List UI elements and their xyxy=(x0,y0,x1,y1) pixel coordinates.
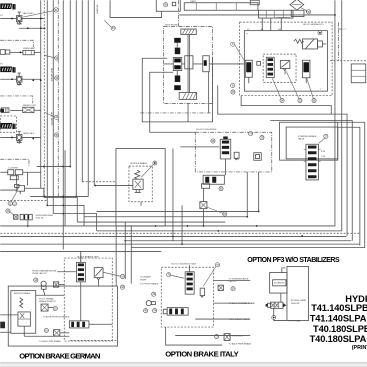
wire xyxy=(338,127,360,245)
svg-text:FROM TRANSMISSIONE: FROM TRANSMISSIONE xyxy=(32,269,56,272)
stubs from cluster xyxy=(16,175,18,185)
dashed wire to right box xyxy=(330,60,367,62)
scattered tiny labels xyxy=(0,0,322,170)
callout 71 xyxy=(214,335,218,339)
svg-text:ALETTATORE: ALETTATORE xyxy=(50,112,53,126)
brake pedal valve xyxy=(18,298,30,331)
inner solid box xyxy=(244,31,327,92)
svg-text:VALVOLA 1: VALVOLA 1 xyxy=(23,12,35,15)
wire Zb xyxy=(47,205,84,226)
x box below pump xyxy=(200,202,207,209)
callout 78 xyxy=(260,136,264,140)
svg-text:EXTEND CARR: EXTEND CARR xyxy=(291,299,306,302)
wire xyxy=(19,27,46,29)
charge valve column xyxy=(76,255,85,282)
junction xyxy=(256,225,258,227)
callout 75 xyxy=(167,273,171,277)
extra junction dots xyxy=(203,225,205,227)
pump assembly bottom xyxy=(201,175,224,188)
diff housing xyxy=(185,56,193,69)
callout 95 xyxy=(164,3,168,7)
wire xyxy=(276,17,290,19)
svg-text:SOLENOID: SOLENOID xyxy=(274,283,285,285)
leader line xyxy=(23,11,54,17)
circle 10 xyxy=(152,292,156,296)
wire xyxy=(46,0,48,205)
top axle beam xyxy=(184,0,259,10)
svg-text:GIDROSPEICHER: GIDROSPEICHER xyxy=(36,215,54,217)
right side of bloco xyxy=(330,22,367,83)
marks xyxy=(195,3,197,11)
top-left logo NEW HOLLAND 1 xyxy=(0,3,15,9)
callouts right xyxy=(120,274,124,278)
dash-dot divider 2 xyxy=(0,96,33,103)
BLOCK BRAKES GER dashed box xyxy=(64,258,112,341)
svg-text:TO AXLE GIROMAL BRAKE: TO AXLE GIROMAL BRAKE xyxy=(229,302,256,305)
wire xyxy=(202,188,204,201)
wire xyxy=(0,18,16,20)
right box xyxy=(351,64,366,83)
small x box xyxy=(53,282,58,287)
svg-text:(PRINTED: (PRINTED xyxy=(352,345,367,351)
collector wire A xyxy=(37,166,70,168)
wire xyxy=(241,96,331,115)
callout 40 xyxy=(144,309,148,313)
callout 76 xyxy=(307,10,311,14)
wire in xyxy=(95,185,133,187)
wires down xyxy=(246,172,248,217)
wire xyxy=(0,136,16,138)
wire long below beam xyxy=(179,14,335,16)
right vertical valve xyxy=(302,60,310,83)
callout xyxy=(44,328,48,332)
svg-text:BLOCO SOLENOID ITALY: BLOCO SOLENOID ITALY xyxy=(172,262,197,265)
callouts bottom xyxy=(280,98,284,102)
stub xyxy=(281,267,283,272)
dash-dot in box xyxy=(177,0,179,26)
axle dash-dot box xyxy=(164,26,213,103)
svg-text:OPTION BRAKE ITALY: OPTION BRAKE ITALY xyxy=(165,350,238,359)
logo NEW HOLLAND 2 xyxy=(0,67,15,73)
svg-text:AXLE FRONT: AXLE FRONT xyxy=(165,23,179,26)
svg-text:VALVOLA 2: VALVOLA 2 xyxy=(23,132,35,135)
valve (X) xyxy=(23,107,34,112)
wire xyxy=(52,0,54,213)
wire xyxy=(62,0,64,249)
svg-text:TO STEERING AXLE: TO STEERING AXLE xyxy=(229,277,249,280)
wire xyxy=(97,0,342,231)
wire twin xyxy=(64,150,66,226)
svg-text:4 RD. M: 4 RD. M xyxy=(36,218,44,220)
wire xyxy=(0,235,346,237)
x box xyxy=(41,304,48,311)
callout 31 xyxy=(54,8,58,12)
wire xyxy=(40,0,42,188)
junction xyxy=(301,235,303,237)
svg-text:BLOCO HIDRAULICO: BLOCO HIDRAULICO xyxy=(303,23,324,26)
connector box xyxy=(156,0,180,11)
small marks xyxy=(172,2,176,6)
outer rect xyxy=(287,266,309,320)
valve xyxy=(266,299,307,308)
wire xyxy=(22,78,41,80)
junction xyxy=(32,79,34,81)
left edge dark component xyxy=(0,322,5,329)
small box on beam xyxy=(250,0,259,5)
wire xyxy=(10,51,23,53)
x box right xyxy=(218,285,223,290)
wire xyxy=(34,51,41,53)
dash-dot section divider 1 xyxy=(0,40,33,47)
lower brake valve xyxy=(69,321,95,328)
wire xyxy=(22,136,41,138)
junction xyxy=(27,27,29,29)
callout 34 xyxy=(54,115,58,119)
shaft below axle xyxy=(187,103,189,122)
wire xyxy=(57,0,59,196)
group 5 : valve with circle 3 xyxy=(0,131,58,144)
svg-text:TO PF3 RAIL: TO PF3 RAIL xyxy=(288,320,301,323)
master valve xyxy=(163,308,188,316)
mid service-brake sub box xyxy=(94,149,183,246)
outer box xyxy=(8,286,117,346)
svg-text:CLUSTER: CLUSTER xyxy=(8,168,18,170)
callout 94 xyxy=(111,26,115,30)
svg-text:BRAKE PUMP LP: BRAKE PUMP LP xyxy=(39,300,56,303)
top-centre tank wire xyxy=(110,0,335,26)
dash-dot xyxy=(337,22,339,61)
component xyxy=(1,108,9,113)
wire xyxy=(338,121,365,123)
wire xyxy=(180,146,219,148)
accumulator xyxy=(41,281,46,292)
callout 74 xyxy=(153,309,157,313)
svg-text:OPTION BRAKE GERMAN: OPTION BRAKE GERMAN xyxy=(19,351,101,360)
svg-text:FRENO ANT: FRENO ANT xyxy=(23,47,36,50)
callout xyxy=(219,187,223,191)
junction xyxy=(19,51,21,53)
box xyxy=(116,149,165,226)
callout 33 xyxy=(55,76,59,80)
junction xyxy=(40,18,42,20)
upper-left valve group 1 xyxy=(0,8,58,29)
left vertical bus wires xyxy=(41,0,116,286)
wire Za xyxy=(25,188,78,222)
logo NEW HOLLAND 3 (dashed surround) xyxy=(0,116,16,132)
bottom grey band xyxy=(0,362,367,363)
collector wire B xyxy=(30,195,88,197)
svg-text:TO AXLE FRER BRAKE: TO AXLE FRER BRAKE xyxy=(229,343,252,346)
valve column inside xyxy=(220,136,231,175)
junction xyxy=(124,240,126,242)
stubs into inner box xyxy=(261,18,263,31)
junction xyxy=(11,137,13,139)
svg-text:OPTION PF3 W/O STABILIZERS: OPTION PF3 W/O STABILIZERS xyxy=(247,257,340,264)
wire xyxy=(81,0,83,182)
callouts left xyxy=(231,42,235,46)
component xyxy=(0,50,5,55)
wire xyxy=(182,63,185,65)
valve xyxy=(23,50,34,54)
dashed box xyxy=(161,267,213,327)
svg-text:ALETTATORE: ALETTATORE xyxy=(50,68,53,82)
wire xyxy=(142,58,213,122)
steering cylinder column (dark) xyxy=(174,38,181,43)
relief valve xyxy=(294,39,327,49)
wire german feed xyxy=(115,226,117,286)
dashed band line xyxy=(0,232,360,234)
svg-text:RETURN: RETURN xyxy=(95,5,97,14)
wire xyxy=(43,0,45,196)
svg-text:TO AXLE WITHOUT BRAKE: TO AXLE WITHOUT BRAKE xyxy=(43,315,70,318)
dashed sub box xyxy=(263,54,296,82)
callout xyxy=(248,132,252,136)
svg-text:SERVICE BRAKE: SERVICE BRAKE xyxy=(14,292,31,295)
svg-text:FOOT THREAD: FOOT THREAD xyxy=(39,297,54,300)
dash-dot frame line mid xyxy=(140,112,212,114)
dashed valve box xyxy=(129,166,152,202)
wire italy feed xyxy=(124,222,126,279)
svg-text:BLOCO SOLENOIDE: BLOCO SOLENOIDE xyxy=(197,129,218,131)
BLOCO HIDRAULICO dashed box xyxy=(231,10,333,103)
wire xyxy=(22,18,44,20)
x box bottom xyxy=(224,334,230,341)
junction xyxy=(40,79,42,81)
callout 27 xyxy=(324,134,328,138)
junction xyxy=(187,225,189,227)
svg-text:VALVE: VALVE xyxy=(298,137,305,140)
small valve xyxy=(200,288,205,297)
AXLE FRONT assembly xyxy=(164,23,245,122)
wire xyxy=(176,43,178,48)
stub below xyxy=(140,202,142,206)
valve V2 xyxy=(16,76,22,82)
svg-text:T41.140SLPA 4: T41.140SLPA 4 xyxy=(310,313,367,323)
svg-text:TO AXLE TWR BRAKE: TO AXLE TWR BRAKE xyxy=(39,340,61,343)
solenoid box xyxy=(270,273,287,294)
callout 73 xyxy=(215,263,219,267)
svg-text:TO FRONT BRAKE: TO FRONT BRAKE xyxy=(140,282,159,285)
valve column xyxy=(266,57,274,77)
square box xyxy=(254,153,262,161)
wires inside german xyxy=(80,251,82,262)
wire down right xyxy=(172,149,174,241)
wire Zc xyxy=(53,214,96,231)
callout 35 xyxy=(54,133,58,137)
right steering inner box xyxy=(286,127,338,159)
wire xyxy=(93,0,95,185)
hand brake valve group top xyxy=(0,185,24,195)
leader to junction xyxy=(300,7,307,11)
filter (diamond) xyxy=(276,0,309,18)
callout 50 xyxy=(231,287,235,291)
callout xyxy=(223,212,227,216)
wires down xyxy=(208,72,210,113)
wire xyxy=(0,243,360,245)
ALCO/BLOCO SOLENOIDE dash-dot box xyxy=(195,132,272,172)
pump right xyxy=(203,56,210,72)
tall valve xyxy=(185,265,194,294)
svg-text:TO BRAKE: TO BRAKE xyxy=(140,275,151,278)
pilot stub xyxy=(18,12,21,16)
valve V3 xyxy=(16,134,22,140)
wire xyxy=(218,85,347,236)
svg-text:SIDE RE: SIDE RE xyxy=(291,303,300,305)
svg-text:T40.180SLPB 4: T40.180SLPB 4 xyxy=(313,324,367,334)
svg-text:PUMP LAYOUT: PUMP LAYOUT xyxy=(32,272,47,275)
group 2 : small valve row xyxy=(0,50,59,60)
wheel bottom (hatched) xyxy=(179,92,196,99)
wire xyxy=(209,63,244,65)
wires xyxy=(214,280,251,282)
dash-dot divider 3 xyxy=(0,159,29,166)
wires xyxy=(273,308,275,315)
dashed divider xyxy=(0,200,48,202)
tall valve xyxy=(304,144,326,180)
top connector box xyxy=(258,10,293,18)
wire xyxy=(77,221,225,223)
right small valve xyxy=(94,268,103,285)
wire xyxy=(97,210,259,212)
callout xyxy=(53,306,57,310)
group 3 : valve with circle 2 xyxy=(0,68,59,85)
long horizontal connection wires (middle band) xyxy=(0,0,365,283)
svg-text:FRENO POST: FRENO POST xyxy=(23,105,37,107)
svg-text:SERVICE BRAKE: SERVICE BRAKE xyxy=(130,162,147,165)
accumulator xyxy=(146,301,155,306)
component on top xyxy=(291,10,304,16)
junction xyxy=(40,27,42,29)
left-mid wires to center xyxy=(142,58,365,245)
small valve xyxy=(280,60,290,74)
gidromat valve xyxy=(13,214,53,226)
wire xyxy=(110,0,162,17)
junction xyxy=(11,78,13,80)
wire xyxy=(0,314,18,316)
junction xyxy=(11,18,13,20)
wire xyxy=(150,72,196,132)
wire italy feed xyxy=(130,226,132,284)
wheel top (hatched) xyxy=(181,29,196,35)
callouts xyxy=(8,201,12,205)
valve V1 xyxy=(16,16,22,22)
wire xyxy=(0,78,16,80)
wire xyxy=(270,121,352,241)
callout 32 xyxy=(55,56,59,60)
callout dark xyxy=(272,315,276,319)
callout 96 xyxy=(211,139,215,143)
svg-text:TANK: TANK xyxy=(190,0,196,3)
wire xyxy=(10,109,23,111)
svg-text:PUMP: PUMP xyxy=(140,279,147,281)
right steering outer box xyxy=(280,122,338,160)
group 6 : small manifold cluster xyxy=(0,170,41,180)
x box small xyxy=(53,330,59,336)
wire xyxy=(0,250,161,252)
group 4 : hatched valve row xyxy=(0,107,58,126)
wire xyxy=(0,0,335,226)
junction xyxy=(32,138,34,140)
leader xyxy=(44,55,54,58)
callout xyxy=(34,278,38,282)
wire xyxy=(87,0,89,196)
tiny spring valve xyxy=(234,152,239,160)
wire box to valve xyxy=(280,293,282,302)
beam rect xyxy=(184,3,258,11)
relief valve xyxy=(135,170,140,179)
junction xyxy=(155,225,157,227)
wire xyxy=(131,122,365,247)
wire xyxy=(125,240,351,242)
junction xyxy=(217,230,219,232)
wire down right 2 xyxy=(181,205,183,244)
svg-text:T41.140SLPB 4: T41.140SLPB 4 xyxy=(311,303,367,313)
left valve xyxy=(245,60,260,83)
callout dark xyxy=(153,161,157,165)
wire xyxy=(84,216,247,218)
wire xyxy=(34,109,41,111)
svg-text:STEERING BRAKE: STEERING BRAKE xyxy=(298,135,317,138)
leader xyxy=(44,112,54,117)
callout dark xyxy=(318,31,322,35)
wire xyxy=(69,0,71,166)
middle right region: boxes xyxy=(180,122,338,226)
axle shaft xyxy=(187,35,189,93)
svg-text:FRER BRAKE REALE: FRER BRAKE REALE xyxy=(229,318,250,321)
wire xyxy=(75,0,77,196)
svg-text:T40.180SLPA 4: T40.180SLPA 4 xyxy=(310,334,367,344)
SERVICE BRAKE box xyxy=(11,291,36,334)
